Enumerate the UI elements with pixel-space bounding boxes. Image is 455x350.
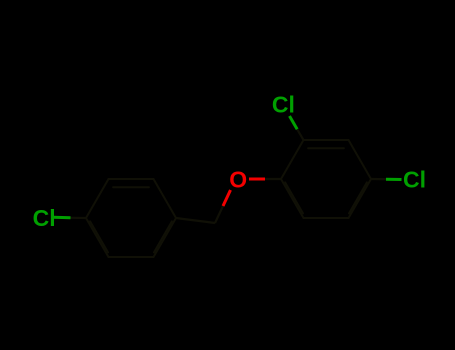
svg-text:O: O (229, 167, 247, 193)
bond C1'-C7 benzylic (176, 218, 215, 223)
bond C2-Cl top (carbon half) (297, 129, 303, 140)
ring B inner double bonds (285, 148, 367, 213)
svg-text:Cl: Cl (272, 91, 295, 117)
bond O-C1 (carbon half) (265, 178, 281, 180)
bond C2-Cl top (chlorine half, green) (290, 116, 298, 129)
bond Cl-C4' left (carbon half) (71, 217, 87, 219)
bond C7-O (oxygen half, red) (223, 190, 231, 206)
bond C4-Cl right (chlorine half, green) (386, 178, 402, 181)
svg-text:Cl: Cl (33, 205, 56, 231)
bond O-C1 (oxygen half, red) (249, 178, 265, 181)
bond C4-Cl right (carbon half) (371, 178, 386, 180)
benzene ring A (4-chlorophenyl, left) outline (86, 179, 176, 257)
bond C7-O (carbon half) (215, 206, 223, 223)
benzene ring B (2,4-dichlorophenyl, right) outline (281, 140, 371, 218)
svg-text:Cl: Cl (403, 167, 426, 193)
bond Cl-C4' left (chlorine half, green) (53, 216, 70, 220)
ring A inner double bonds (90, 187, 172, 252)
